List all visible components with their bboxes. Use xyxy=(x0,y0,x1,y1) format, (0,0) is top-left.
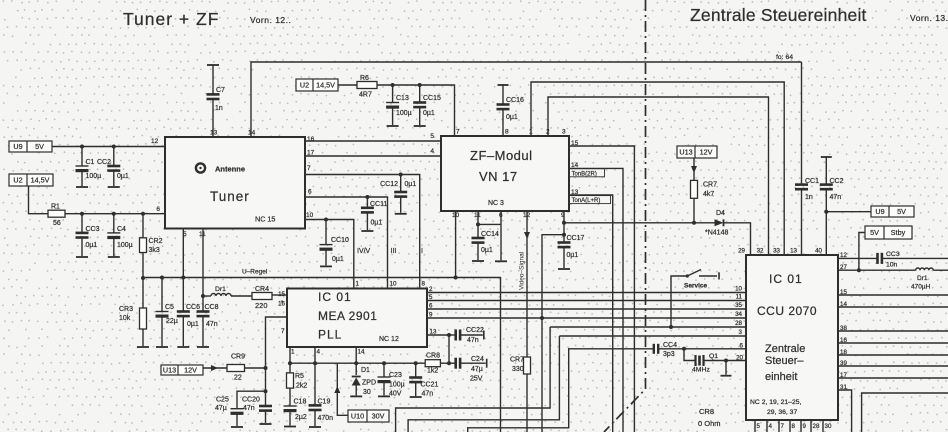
wire tuner pin 17 to ZF pin 4 xyxy=(305,155,441,157)
capacitor C23 100u 40V xyxy=(382,361,386,365)
svg-text:CC15: CC15 xyxy=(423,95,441,102)
node U2 14,5V supply box xyxy=(9,174,53,186)
capacitor CC21 47n xyxy=(414,361,418,365)
svg-text:3: 3 xyxy=(739,329,743,336)
node U10 30V supply box xyxy=(348,410,389,422)
wire R6 to ZF pin 7 xyxy=(377,85,455,137)
svg-text:0µ1: 0µ1 xyxy=(117,173,129,180)
svg-text:C4: C4 xyxy=(117,226,126,233)
wire ZF pin 9 to diode D4 to CCU pin 29 xyxy=(564,222,715,224)
svg-text:CC17: CC17 xyxy=(567,235,585,242)
svg-text:TonB(2R): TonB(2R) xyxy=(572,171,597,177)
diode D4 *N4148 xyxy=(715,219,724,226)
svg-text:C19: C19 xyxy=(318,399,331,406)
svg-text:Zentrale Steuereinheit: Zentrale Steuereinheit xyxy=(690,5,867,25)
svg-text:25V: 25V xyxy=(470,376,483,383)
svg-text:CR3: CR3 xyxy=(119,306,133,313)
svg-text:470n: 470n xyxy=(318,415,334,422)
svg-text:C23: C23 xyxy=(389,372,402,379)
wire bus to CCU pin 3 xyxy=(559,335,746,337)
svg-text:C1: C1 xyxy=(86,159,95,166)
tuner pin 11 riser to Dr1 junction xyxy=(202,229,204,297)
svg-text:5V: 5V xyxy=(870,228,879,237)
svg-text:100µ: 100µ xyxy=(86,173,102,180)
wire ZF pin 2 to CCU pin 32 xyxy=(548,97,769,255)
svg-text:30: 30 xyxy=(825,423,832,430)
capacitor CC2 47n to CCU pin 40 xyxy=(821,156,832,158)
svg-text:14: 14 xyxy=(358,349,365,356)
svg-text:CC1: CC1 xyxy=(805,178,819,185)
svg-text:IV/V: IV/V xyxy=(357,248,371,255)
capacitor CC17 xyxy=(563,235,565,243)
svg-text:IC 01: IC 01 xyxy=(318,290,352,304)
wire U2 to R6 xyxy=(338,84,357,86)
wire ZF pin 12 video signal line xyxy=(526,211,528,357)
wire bus to CCU pin 34 xyxy=(427,317,746,319)
svg-text:47n: 47n xyxy=(467,337,479,344)
capacitor CC4 3p3 crystal line xyxy=(468,349,654,432)
tuner pin 5 riser to CC6 xyxy=(182,229,184,279)
resistor CR3 10k xyxy=(141,276,145,280)
svg-text:U9: U9 xyxy=(875,207,884,216)
svg-text:47n: 47n xyxy=(206,321,218,328)
svg-text:CR7: CR7 xyxy=(510,357,524,364)
wire bus to CCU pin 35 xyxy=(427,308,746,310)
svg-text:Antenne: Antenne xyxy=(215,165,245,174)
wire L-bus from bottom to pin 3 wire xyxy=(408,336,559,432)
svg-text:ZPD: ZPD xyxy=(362,380,376,387)
wire ZF pin 15 audio line xyxy=(569,146,634,432)
svg-text:12V: 12V xyxy=(700,148,713,157)
node U2 14,5V supply box 2 xyxy=(296,79,338,91)
svg-text:NC 15: NC 15 xyxy=(255,215,275,224)
capacitor CC3 xyxy=(80,212,84,216)
svg-text:7: 7 xyxy=(781,423,785,430)
svg-text:C25: C25 xyxy=(216,397,229,404)
svg-text:einheit: einheit xyxy=(765,371,797,383)
wire bus to CCU pin 11 xyxy=(427,300,746,302)
svg-text:Stby: Stby xyxy=(891,228,906,237)
svg-text:D1: D1 xyxy=(361,367,370,374)
node U9 5V supply box xyxy=(9,141,52,152)
node U13 12V supply box xyxy=(677,146,717,158)
resistor CR2 3k3 xyxy=(141,212,145,216)
wire ZF pin 13 audio line xyxy=(569,195,613,432)
svg-text:0µ1: 0µ1 xyxy=(332,256,344,263)
svg-text:0µ1: 0µ1 xyxy=(481,247,493,254)
wire tuner pin 10 via CC10 to MEA pin 1 riser xyxy=(305,220,354,289)
svg-text:47n: 47n xyxy=(830,194,842,201)
svg-text:7: 7 xyxy=(281,328,285,335)
svg-text:13: 13 xyxy=(790,248,797,255)
capacitor C5 xyxy=(160,276,164,280)
node U9 5V supply box 2 xyxy=(871,206,914,217)
svg-text:CC3: CC3 xyxy=(886,251,900,258)
svg-text:7: 7 xyxy=(307,165,311,172)
capacitor CC14 on ZF pin 11 xyxy=(477,211,479,224)
capacitor CC8 xyxy=(202,296,204,312)
svg-text:Tuner: Tuner xyxy=(210,189,250,204)
svg-text:35: 35 xyxy=(735,302,742,309)
svg-text:CR9: CR9 xyxy=(231,354,245,361)
resistor CR8 1k2 xyxy=(425,360,440,367)
svg-text:I: I xyxy=(421,248,423,255)
wire ZF pin 9 with CC17 and branch xyxy=(563,211,565,235)
svg-text:Zentrale: Zentrale xyxy=(765,343,805,355)
svg-text:8: 8 xyxy=(792,423,796,430)
resistor CR4 220 xyxy=(252,293,272,300)
wire U13 to CR7 xyxy=(693,158,695,180)
antenna symbol xyxy=(196,163,205,172)
svg-text:U2: U2 xyxy=(300,81,309,90)
svg-text:CR7: CR7 xyxy=(703,182,717,189)
resistor CR7 4k7 xyxy=(691,180,698,198)
wire tuner pin 14 top rail fo:64 xyxy=(251,62,802,137)
svg-text:40V: 40V xyxy=(389,391,402,398)
svg-text:29: 29 xyxy=(738,248,745,255)
svg-text:III: III xyxy=(391,248,397,255)
svg-text:47µ: 47µ xyxy=(471,366,483,373)
svg-text:5: 5 xyxy=(429,294,433,301)
wire CCU pin 31 xyxy=(838,390,852,432)
node 5V Stby supply box xyxy=(865,226,912,239)
svg-text:6: 6 xyxy=(156,206,160,213)
capacitor C13 xyxy=(391,83,395,87)
svg-text:CC11: CC11 xyxy=(370,201,387,208)
wire U-Regel xyxy=(143,277,456,279)
svg-text:CC4: CC4 xyxy=(663,342,677,349)
svg-text:9: 9 xyxy=(803,423,807,430)
svg-text:CC22: CC22 xyxy=(466,327,484,334)
wire tuner pin 7 via CC12 to MEA pin 8 riser xyxy=(305,175,420,289)
wire CCU pin 38 xyxy=(838,330,948,332)
svg-text:C13: C13 xyxy=(396,95,409,102)
svg-text:MEA 2901: MEA 2901 xyxy=(318,309,377,323)
svg-text:Q1: Q1 xyxy=(709,353,718,360)
wire U13 to CR9 xyxy=(203,367,227,369)
svg-text:3p3: 3p3 xyxy=(663,351,675,358)
capacitor C19 470n xyxy=(314,347,316,363)
svg-text:20: 20 xyxy=(736,355,743,362)
wire MEA pin 13 with CC22 xyxy=(427,334,449,336)
wire ZF pin 1 to CCU pin 33 xyxy=(531,82,784,255)
svg-text:CC16: CC16 xyxy=(506,97,524,104)
svg-text:14: 14 xyxy=(248,130,256,137)
svg-text:100µ: 100µ xyxy=(389,382,405,389)
node U13 12V supply box 2 xyxy=(161,365,203,375)
svg-text:U–Regel: U–Regel xyxy=(242,269,268,276)
capacitor CC2 xyxy=(112,145,116,149)
svg-text:Vorn. 13..: Vorn. 13.. xyxy=(910,13,948,23)
capacitor CC15 xyxy=(418,83,422,87)
svg-text:NC 3: NC 3 xyxy=(488,200,504,207)
svg-text:2k2: 2k2 xyxy=(296,383,307,390)
svg-text:22: 22 xyxy=(234,375,242,382)
wire ZF pin 10 riser to U-Regel line xyxy=(455,211,457,278)
svg-text:Vorn. 12..: Vorn. 12.. xyxy=(250,15,291,25)
wire CCU pin 17 xyxy=(838,377,948,379)
svg-text:22µ: 22µ xyxy=(166,318,178,325)
svg-text:0µ1: 0µ1 xyxy=(371,220,383,227)
resistor R5 2k2 with C18 xyxy=(289,347,291,363)
wire U2 to R1 xyxy=(29,186,49,214)
svg-text:220: 220 xyxy=(255,301,268,310)
svg-text:28: 28 xyxy=(735,320,742,327)
svg-text:5V: 5V xyxy=(897,207,906,216)
svg-text:U13: U13 xyxy=(163,366,176,375)
svg-text:U2: U2 xyxy=(13,176,22,185)
svg-text:10: 10 xyxy=(735,286,742,293)
wire R1 to tuner pin 6 xyxy=(65,213,166,215)
op-amp U2 IC 01 CCU 2070 block xyxy=(746,255,838,420)
svg-text:6: 6 xyxy=(429,303,433,310)
wire ZF pin 14 audio line xyxy=(569,168,623,432)
svg-text:0µ1: 0µ1 xyxy=(506,114,518,121)
svg-text:U9: U9 xyxy=(13,142,22,151)
wire CCU bottom pin risers xyxy=(754,420,756,432)
svg-text:10: 10 xyxy=(390,281,397,288)
svg-text:CR8: CR8 xyxy=(699,407,714,416)
svg-text:16: 16 xyxy=(307,136,315,143)
svg-text:PLL: PLL xyxy=(318,328,342,342)
svg-text:10k: 10k xyxy=(119,315,131,322)
wire fo:64 down through CC1 to CCU pin 13 xyxy=(801,62,803,185)
capacitor C7 on tuner pin 13 xyxy=(212,99,214,137)
svg-text:CC21: CC21 xyxy=(421,382,439,389)
svg-text:2µ2: 2µ2 xyxy=(295,414,307,421)
svg-text:D4: D4 xyxy=(716,210,725,217)
svg-text:7: 7 xyxy=(456,129,460,136)
svg-text:0 Ohm: 0 Ohm xyxy=(698,419,721,428)
svg-text:12: 12 xyxy=(151,138,159,145)
svg-text:32: 32 xyxy=(757,248,764,255)
svg-text:*N4148: *N4148 xyxy=(705,230,728,237)
svg-text:Tuner + ZF: Tuner + ZF xyxy=(123,9,219,29)
wire CCU pin 18 xyxy=(838,354,948,356)
svg-text:CC6: CC6 xyxy=(186,304,200,311)
svg-text:NC 2, 19, 21–25,: NC 2, 19, 21–25, xyxy=(750,399,801,406)
svg-text:CC10: CC10 xyxy=(331,237,349,244)
svg-text:33: 33 xyxy=(773,248,780,255)
svg-text:4k7: 4k7 xyxy=(703,191,714,198)
svg-text:1n: 1n xyxy=(215,105,223,112)
capacitor C4 xyxy=(112,212,116,216)
capacitor CC16 on ZF pin 8 xyxy=(498,84,509,86)
svg-text:10n: 10n xyxy=(886,262,898,269)
wire CCU pin 27 with inductor Dr1 470uH xyxy=(838,269,916,271)
svg-text:5V: 5V xyxy=(35,142,44,151)
wire CR9 to pin7 riser xyxy=(245,367,266,369)
svg-text:5: 5 xyxy=(757,423,761,430)
svg-text:15: 15 xyxy=(278,291,285,298)
svg-text:Service: Service xyxy=(684,283,708,290)
svg-text:1n: 1n xyxy=(805,194,813,201)
svg-text:ZF–Modul: ZF–Modul xyxy=(470,148,533,163)
svg-text:3k3: 3k3 xyxy=(149,247,160,254)
svg-text:56: 56 xyxy=(53,220,61,227)
svg-text:VN 17: VN 17 xyxy=(479,169,518,184)
resistor CR9 22 xyxy=(227,365,245,372)
svg-text:NC 12: NC 12 xyxy=(379,336,399,343)
svg-text:30V: 30V xyxy=(372,412,385,421)
svg-text:TonA(L+R): TonA(L+R) xyxy=(572,198,601,204)
ZF-Modul block xyxy=(441,136,569,211)
svg-text:0µ1: 0µ1 xyxy=(86,242,98,249)
capacitor CC10 xyxy=(324,218,328,222)
svg-text:40: 40 xyxy=(815,248,822,255)
svg-text:47µ: 47µ xyxy=(215,405,227,412)
svg-text:1: 1 xyxy=(356,281,360,288)
capacitor CC11 xyxy=(365,195,369,199)
wire MEA pin 7 xyxy=(266,317,288,368)
svg-text:2: 2 xyxy=(429,286,433,293)
svg-text:1k2: 1k2 xyxy=(427,368,438,375)
svg-text:C7: C7 xyxy=(216,87,225,94)
wire CC17 stub to bottom bus xyxy=(542,235,564,432)
svg-text:4: 4 xyxy=(769,423,773,430)
svg-text:12V: 12V xyxy=(184,366,197,375)
ground at Q1 xyxy=(725,361,727,375)
wire bus to CCU pin 28 xyxy=(550,326,746,328)
svg-text:3: 3 xyxy=(562,129,566,136)
resistor R6 4R7 xyxy=(357,82,377,89)
op-amp U1 IC 01 MEA 2901 PLL block xyxy=(287,289,427,348)
svg-text:CC2: CC2 xyxy=(97,159,111,166)
node TonA(L+R) label xyxy=(570,196,611,204)
svg-text:CCU 2070: CCU 2070 xyxy=(757,304,817,318)
svg-text:0µ1: 0µ1 xyxy=(187,321,199,328)
svg-text:0µ1: 0µ1 xyxy=(405,181,417,188)
svg-text:4: 4 xyxy=(317,349,321,356)
svg-text:CR2: CR2 xyxy=(149,238,163,245)
wire riser to CC20 xyxy=(265,368,267,391)
inductor Dr1 220 line to MEA pin 15 xyxy=(201,294,205,298)
resistor CR7 330 xyxy=(524,357,531,374)
svg-text:CR4: CR4 xyxy=(255,286,269,293)
svg-text:U10: U10 xyxy=(351,412,364,421)
node TonB(2R) label xyxy=(570,169,605,177)
wire CCU pin 16 xyxy=(838,342,948,344)
svg-text:6: 6 xyxy=(740,343,744,350)
wire CCU pin 39 xyxy=(838,365,948,367)
svg-text:R5: R5 xyxy=(295,373,304,380)
capacitor CC12 xyxy=(399,173,403,177)
wire U10 30V feed with arrow xyxy=(337,363,348,415)
capacitor C24 47u 25V xyxy=(449,362,456,364)
crystal Q1 4MHz xyxy=(684,349,695,361)
svg-text:1: 1 xyxy=(291,349,295,356)
svg-text:IC 01: IC 01 xyxy=(769,272,803,286)
svg-text:13: 13 xyxy=(210,130,218,137)
wire L-bus from bottom to pin 28 wire xyxy=(396,327,550,432)
svg-text:47n: 47n xyxy=(422,391,434,398)
svg-text:14,5V: 14,5V xyxy=(31,176,50,185)
svg-text:CC20: CC20 xyxy=(242,397,260,404)
wire tuner pin 6 via CC11 to MEA pin 10 riser xyxy=(305,197,388,289)
wire MEA bottom rail pin 14 xyxy=(290,362,425,364)
wire CCU pin 15 xyxy=(838,294,948,296)
svg-text:fo: 64: fo: 64 xyxy=(776,54,793,61)
svg-text:U13: U13 xyxy=(679,148,692,157)
wire nested corner right xyxy=(862,393,948,432)
capacitor C1 xyxy=(80,145,84,149)
svg-text:C5: C5 xyxy=(165,304,174,311)
svg-text:34: 34 xyxy=(735,311,742,318)
resistor R1 56 xyxy=(48,210,65,217)
section divider dash-dot line xyxy=(604,0,646,432)
svg-text:5: 5 xyxy=(430,133,434,140)
svg-text:CC2: CC2 xyxy=(830,178,844,185)
svg-text:4R7: 4R7 xyxy=(359,92,372,99)
switch Service xyxy=(671,276,687,327)
svg-text:R1: R1 xyxy=(51,204,60,211)
wire 5V rail to tuner pin 12 xyxy=(52,146,166,148)
capacitor CC22 47n xyxy=(449,334,456,336)
tuner block xyxy=(165,137,305,229)
svg-text:6: 6 xyxy=(308,189,312,196)
svg-text:470µH: 470µH xyxy=(911,284,931,291)
svg-text:11: 11 xyxy=(736,294,743,301)
capacitor CC20 47n xyxy=(265,391,267,406)
svg-text:28: 28 xyxy=(813,423,820,430)
capacitor C25 47u xyxy=(237,391,266,409)
svg-text:100µ: 100µ xyxy=(117,242,133,249)
svg-text:30: 30 xyxy=(363,389,371,396)
svg-text:CR8: CR8 xyxy=(426,353,440,360)
svg-text:100µ: 100µ xyxy=(396,110,412,117)
svg-text:0µ1: 0µ1 xyxy=(567,252,579,259)
svg-text:8: 8 xyxy=(422,281,426,288)
svg-text:Steuer–: Steuer– xyxy=(765,355,804,367)
svg-text:9: 9 xyxy=(429,312,433,319)
wire CCU pin 14 xyxy=(838,306,948,308)
svg-text:CC3: CC3 xyxy=(86,226,100,233)
svg-text:CC14: CC14 xyxy=(481,231,499,238)
wire bus MEA pin 2 to CCU pin 10 xyxy=(427,292,746,294)
svg-text:C24: C24 xyxy=(471,356,484,363)
svg-text:CC8: CC8 xyxy=(205,304,219,311)
svg-text:29, 36, 37: 29, 36, 37 xyxy=(767,409,797,416)
svg-text:10: 10 xyxy=(306,212,314,219)
capacitor CC6 xyxy=(181,276,185,280)
wire ZF pin 6 to ground xyxy=(478,223,501,225)
svg-text:4: 4 xyxy=(430,148,434,155)
wire CCU pin 12 with CC3 10n xyxy=(838,257,878,259)
svg-text:47n: 47n xyxy=(243,405,255,412)
zener diode D1 ZPD 30 xyxy=(355,347,357,363)
wire tuner pin 16 to ZF pin 5 xyxy=(305,140,441,142)
svg-text:8: 8 xyxy=(505,129,509,136)
wire 5V Stby to CCU pin 27 xyxy=(859,233,865,271)
svg-text:14,5V: 14,5V xyxy=(316,81,335,90)
svg-text:4MHz: 4MHz xyxy=(692,367,710,374)
svg-text:CC12: CC12 xyxy=(380,181,398,188)
svg-text:R6: R6 xyxy=(360,75,369,82)
capacitor CC1 1n xyxy=(795,183,808,186)
svg-text:0µ1: 0µ1 xyxy=(423,110,435,117)
capacitor C18 2u2 xyxy=(284,405,297,407)
svg-text:Dr1: Dr1 xyxy=(917,275,928,282)
svg-text:Video–Signal: Video–Signal xyxy=(519,251,526,290)
svg-text:Dr1: Dr1 xyxy=(215,286,226,293)
svg-text:C18: C18 xyxy=(294,399,307,406)
svg-text:330: 330 xyxy=(512,366,524,373)
